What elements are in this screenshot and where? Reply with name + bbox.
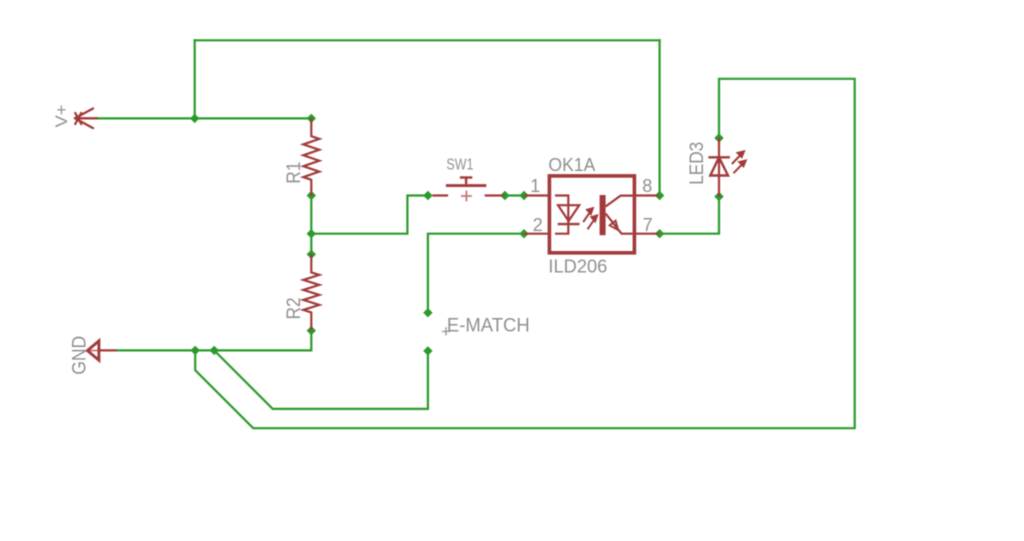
optocoupler internal light arrows [583, 208, 597, 229]
junction GND rail 2 [210, 346, 219, 355]
op-amp U1 optocoupler OK1A box [549, 176, 634, 253]
wire vertical from top rail to V+ row [194, 40, 196, 118]
junction OK1A pin 7 [655, 229, 664, 238]
junction R2 top [307, 250, 316, 259]
junction R1 bottom [307, 191, 316, 200]
optocoupler pin leads [524, 196, 659, 234]
optocoupler internal phototransistor [600, 195, 633, 235]
junction OK1A pin 1 [519, 191, 528, 200]
svg-text:E-MATCH: E-MATCH [447, 314, 530, 336]
wire E-MATCH pin 2 loop [214, 350, 428, 409]
junction GND rail 1 [191, 346, 200, 355]
junction R2 bottom [307, 326, 316, 335]
junction OK1A pin 2 [519, 229, 528, 238]
wire V+ to R1 top [97, 117, 311, 119]
wire pin 8 to top rail [658, 40, 660, 195]
LED3 diode [708, 138, 730, 197]
svg-text:R2: R2 [283, 297, 305, 319]
svg-text:8: 8 [642, 176, 652, 196]
LED3 light arrows [732, 151, 746, 173]
wire pin 7 to LED3 bottom [660, 197, 719, 234]
wire GND row [117, 331, 312, 351]
junction R1 top [307, 114, 316, 123]
resistor R2 [303, 254, 319, 330]
svg-text:LED3: LED3 [686, 142, 708, 185]
svg-text:OK1A: OK1A [548, 154, 595, 175]
svg-text:ILD206: ILD206 [548, 257, 607, 277]
svg-text:SW1: SW1 [446, 157, 473, 174]
junction switch branch T [307, 229, 316, 238]
ground GND symbol [87, 341, 116, 360]
svg-text:GND: GND [70, 336, 91, 375]
resistor R1 [303, 118, 319, 195]
svg-text:2: 2 [533, 215, 543, 235]
wire junction to switch left [311, 196, 428, 234]
junction LED3 top [714, 133, 723, 142]
connector E-MATCH origin cross [442, 327, 450, 335]
junction LED3 bottom [714, 192, 723, 201]
junction switch right pin [500, 191, 509, 200]
wire R1 bottom to R2 top [310, 196, 312, 255]
wire switch right to pin 1 [505, 194, 524, 196]
junction E-MATCH pin 2 [423, 346, 432, 355]
optocoupler internal LED [555, 196, 580, 234]
junction OK1A pin 8 [655, 191, 664, 200]
supply V+ symbol [75, 109, 97, 129]
svg-text:7: 7 [643, 215, 653, 235]
wire pin 2 to E-MATCH pin 1 [428, 234, 524, 313]
wire LED3 top to right rail and bottom rail to GND junction [195, 79, 855, 428]
svg-text:1: 1 [530, 176, 540, 196]
junction E-MATCH pin 1 [423, 308, 432, 317]
svg-text:V+: V+ [53, 105, 71, 128]
svg-text:R1: R1 [283, 162, 305, 184]
switch SW1 [432, 178, 503, 202]
junction V+ rail T [190, 114, 199, 123]
wire top horizontal V+ rail [195, 39, 660, 41]
junction switch left pin [423, 191, 432, 200]
